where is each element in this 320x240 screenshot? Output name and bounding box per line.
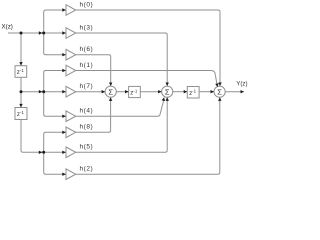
arrow into summer U1 left <box>102 90 106 93</box>
arrow into summer U1 top <box>109 83 112 87</box>
junction x2 distribution <box>42 151 45 154</box>
svg-text:h(8): h(8) <box>80 124 94 131</box>
arrow into summer U2 top <box>166 83 169 87</box>
svg-text:h(6): h(6) <box>80 46 94 53</box>
svg-text:h(5): h(5) <box>80 144 94 151</box>
junction input distribution <box>42 32 45 35</box>
wire h(0) to summer U3 top <box>76 10 220 86</box>
wire riser to h(0) row <box>44 10 66 33</box>
arrow into delay Z4 <box>184 90 188 93</box>
arrow into summer U3 bottom <box>218 97 221 101</box>
arrow into gain h(3) <box>62 31 66 34</box>
arrow x1 row <box>39 90 43 93</box>
arrow into delay Z3 <box>125 90 129 93</box>
wire input drop to delay Z1 <box>20 33 22 65</box>
wire summer U1 to delay Z3 <box>116 91 128 93</box>
gain h(7) <box>66 86 76 97</box>
wire h(8) to summer U1 bottom <box>76 98 111 133</box>
arrow h(1) into summer U3 top <box>215 83 218 87</box>
svg-text:Σ: Σ <box>165 87 170 96</box>
svg-text:h(0): h(0) <box>80 1 94 8</box>
gain h(0) <box>66 5 76 16</box>
svg-text:h(2): h(2) <box>80 166 94 173</box>
arrow into gain h(0) <box>62 8 66 11</box>
wire h(5) to summer U2 bottom <box>76 98 168 153</box>
summer U3 <box>214 86 225 97</box>
wire h(7) to summer U1 left <box>76 91 105 93</box>
arrow into summer U2 bottom <box>166 97 169 101</box>
wire summer U2 to delay Z4 <box>173 91 187 93</box>
wire delay Z1 out to x1 row <box>21 77 66 91</box>
arrow into gain h(8) <box>62 131 66 134</box>
wire h(6) to summer U1 top <box>76 55 111 86</box>
arrow into gain h(5) <box>62 151 66 154</box>
junction x1 distribution <box>42 90 45 93</box>
arrow into gain h(6) <box>62 53 66 56</box>
wire h(3) to summer U2 top <box>76 33 168 86</box>
svg-text:h(4): h(4) <box>80 108 94 115</box>
arrow h(0) into summer U3 top <box>218 83 221 87</box>
svg-text:h(7): h(7) <box>80 83 94 90</box>
arrow into summer U1 bottom <box>109 97 112 101</box>
arrow into delay Z1 <box>19 62 22 66</box>
wire delay Z3 to summer U2 <box>140 91 161 93</box>
svg-text:Y(z): Y(z) <box>236 80 247 87</box>
wire drop to h(4) row <box>44 92 66 117</box>
wire riser to h(8) row <box>44 132 66 152</box>
gain h(4) <box>66 111 76 122</box>
wire input X(z) to h(3) <box>8 32 66 34</box>
arrow into gain h(4) <box>62 115 66 118</box>
wire h(2) to summer U3 bottom <box>76 98 220 175</box>
gain h(8) <box>66 127 76 138</box>
wire drop to h(2) row <box>44 152 66 174</box>
gain h(3) <box>66 28 76 39</box>
delay Z2 z^-1 <box>15 108 27 120</box>
arrow into summer U3 left <box>211 90 215 93</box>
node X(z) input label <box>2 24 13 31</box>
gain h(1) <box>66 65 76 76</box>
svg-text:h(1): h(1) <box>80 62 94 69</box>
svg-text:X(z): X(z) <box>2 24 13 31</box>
junction x1 delay tap <box>20 90 23 93</box>
wire drop to h(6) row <box>44 33 66 55</box>
gain h(6) <box>66 49 76 60</box>
summer U2 <box>162 86 173 97</box>
arrow diag into summer U2 bottom <box>162 97 165 101</box>
arrow output Y(z) <box>241 90 245 93</box>
gain h(2) <box>66 169 76 180</box>
wire delay Z4 to summer U3 <box>199 91 214 93</box>
arrow into summer U2 left <box>158 90 162 93</box>
wire riser to h(1) row <box>44 71 66 92</box>
delay Z4 z^-1 <box>187 87 199 99</box>
arrow x2 row <box>39 151 43 154</box>
arrow into gain h(2) <box>62 173 66 176</box>
svg-text:Σ: Σ <box>217 87 222 96</box>
arrow input row <box>39 31 43 34</box>
svg-text:Σ: Σ <box>108 87 113 96</box>
wire x1 drop to delay Z2 <box>20 92 22 107</box>
gain h(5) <box>66 147 76 158</box>
arrow into delay Z2 <box>19 104 22 108</box>
delay Z3 z^-1 <box>129 86 141 97</box>
summer U1 <box>105 86 116 97</box>
wire delay Z2 out to x2 row <box>21 120 66 153</box>
wire summer U3 to output Y(z) <box>225 91 244 93</box>
arrow into gain h(7) <box>62 90 66 93</box>
svg-text:h(3): h(3) <box>80 24 94 31</box>
junction input-delay tap <box>20 32 23 35</box>
arrow into gain h(1) <box>62 69 66 72</box>
wire h(4) diagonal to summer U2 bottom <box>76 100 164 116</box>
wire h(1) to summer U3 top <box>76 71 218 86</box>
delay Z1 z^-1 <box>15 66 27 78</box>
